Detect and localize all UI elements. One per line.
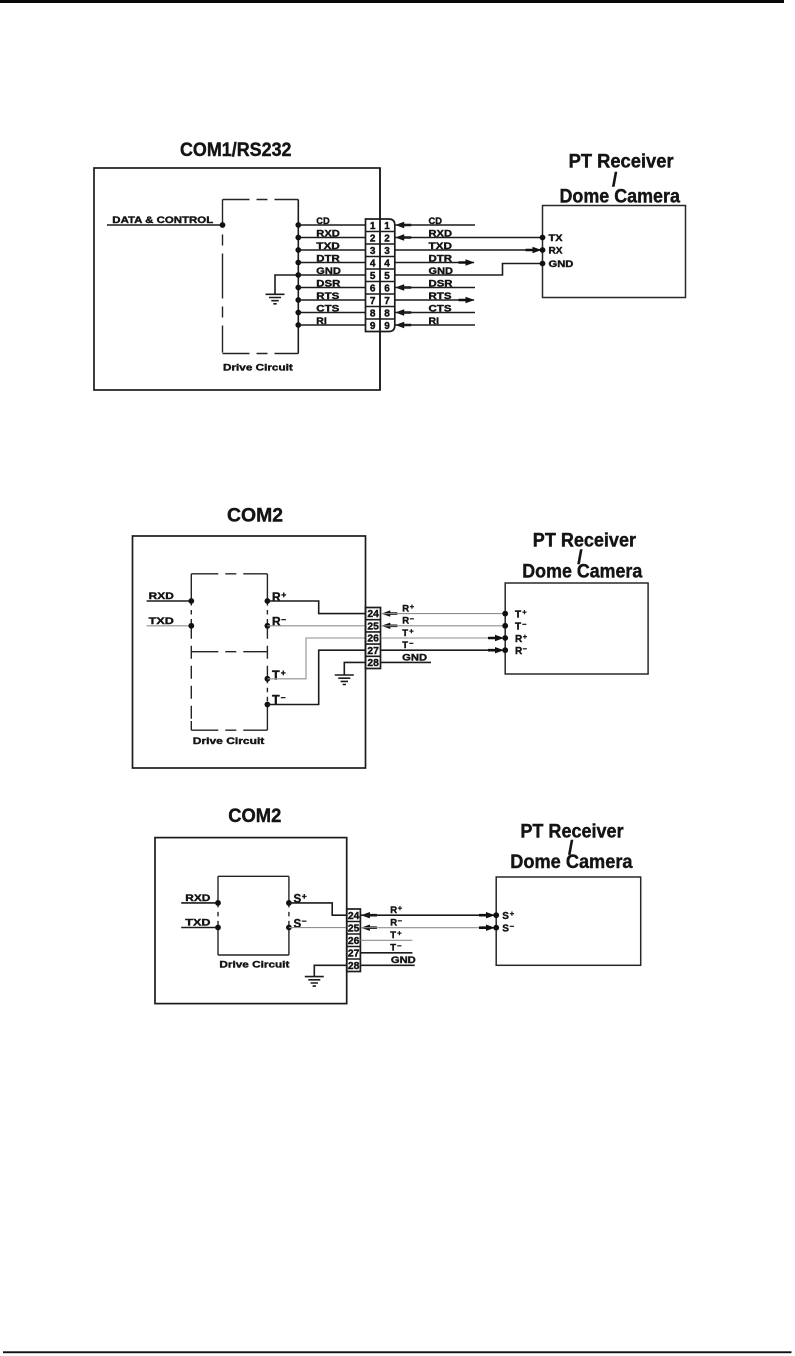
svg-text:28: 28 — [348, 961, 360, 972]
wire RXD to TX — [395, 237, 543, 239]
svg-text:GND: GND — [429, 266, 454, 277]
wire pin25 to T- — [381, 625, 505, 627]
ground symbol G3 — [305, 965, 347, 986]
svg-text:Dome Camera: Dome Camera — [522, 561, 642, 582]
COM1 box — [94, 168, 380, 390]
svg-text:+: + — [397, 929, 402, 938]
svg-text:R: R — [515, 646, 523, 657]
wire RI — [395, 324, 475, 326]
svg-text:DTR: DTR — [429, 254, 453, 265]
node T- drive output — [265, 650, 366, 707]
arrow into pin9 — [395, 322, 411, 328]
svg-text:4: 4 — [384, 259, 390, 270]
svg-text:CTS: CTS — [316, 304, 339, 315]
svg-text:+: + — [281, 590, 286, 600]
node S+ — [493, 909, 514, 922]
svg-text:+: + — [523, 632, 528, 641]
svg-text:R: R — [402, 616, 409, 627]
svg-text:+: + — [522, 607, 527, 616]
signal labels right of block — [402, 602, 427, 663]
svg-text:–: – — [523, 644, 527, 653]
svg-text:1: 1 — [384, 221, 390, 232]
svg-text:S: S — [502, 924, 509, 935]
svg-text:26: 26 — [367, 634, 379, 645]
svg-text:S: S — [502, 911, 509, 922]
junction dots on bus — [295, 222, 301, 328]
node RX — [540, 246, 564, 257]
svg-text:R: R — [272, 615, 281, 629]
arrow RTS — [459, 297, 475, 303]
top border bar — [0, 0, 784, 3]
svg-text:–: – — [281, 614, 286, 624]
node TXD — [147, 616, 195, 629]
svg-text:R: R — [390, 918, 397, 929]
svg-text:R: R — [272, 590, 281, 604]
svg-text:T: T — [390, 943, 396, 954]
arrow at receiver R- — [488, 647, 504, 653]
PT receiver box — [505, 583, 648, 674]
arrow into pin2 — [395, 234, 411, 240]
label Drive Circuit — [193, 736, 266, 747]
receiver title PT Receiver / Dome Camera — [560, 151, 681, 207]
title COM2 — [228, 806, 281, 827]
svg-text:T: T — [402, 640, 408, 651]
terminal block pins 24-28 — [347, 909, 361, 972]
wire pin25 to S- — [361, 927, 496, 929]
svg-text:+: + — [281, 667, 286, 677]
wire RTS — [395, 299, 474, 301]
node R- drive output — [265, 614, 366, 629]
svg-text:–: – — [398, 916, 402, 925]
node GND — [540, 259, 574, 270]
node R+ drive output — [265, 590, 366, 614]
receiver title PT Receiver / Dome Camera — [510, 821, 633, 873]
svg-text:PT Receiver: PT Receiver — [533, 530, 637, 551]
ground symbol G1 — [266, 275, 299, 304]
svg-text:RTS: RTS — [316, 291, 339, 302]
svg-text:T: T — [390, 930, 396, 941]
svg-text:RTS: RTS — [429, 291, 452, 302]
title COM2 — [227, 506, 283, 527]
arrow at receiver S+ — [479, 912, 495, 918]
svg-text:R: R — [515, 634, 523, 645]
svg-text:5: 5 — [384, 271, 390, 282]
svg-text:CD: CD — [429, 216, 443, 227]
svg-text:1: 1 — [370, 221, 376, 232]
svg-text:7: 7 — [370, 296, 376, 307]
wire pin27 to R- — [381, 649, 505, 651]
svg-text:PT Receiver: PT Receiver — [569, 151, 675, 172]
svg-text:DSR: DSR — [316, 279, 340, 290]
drive circuit dashed box U2 — [191, 574, 267, 730]
node TXD — [181, 918, 221, 931]
svg-text:25: 25 — [367, 621, 379, 632]
wire DSR — [395, 287, 475, 289]
node R- — [502, 644, 527, 657]
svg-text:2: 2 — [384, 234, 390, 245]
wire TXD to RX — [395, 249, 543, 251]
svg-text:GND: GND — [549, 259, 574, 270]
svg-text:27: 27 — [348, 948, 360, 959]
svg-text:T: T — [515, 622, 521, 633]
svg-text:Dome Camera: Dome Camera — [510, 852, 633, 873]
wire CTS — [395, 312, 475, 314]
svg-text:–: – — [281, 692, 286, 702]
svg-text:TX: TX — [549, 233, 564, 244]
svg-text:S: S — [294, 918, 302, 930]
wire CD — [395, 224, 475, 226]
arrow into pin24 — [381, 610, 397, 616]
svg-text:3: 3 — [370, 246, 376, 257]
svg-text:8: 8 — [370, 309, 376, 320]
svg-text:–: – — [510, 921, 514, 930]
wire pin28 GND stub — [360, 964, 414, 966]
svg-text:COM2: COM2 — [228, 806, 281, 827]
wire pin26 T+ stub — [360, 939, 412, 941]
svg-text:–: – — [397, 941, 401, 950]
bottom rule — [3, 1351, 792, 1353]
svg-text:2: 2 — [370, 234, 376, 245]
COM2 box — [155, 838, 347, 1004]
svg-text:GND: GND — [402, 652, 427, 663]
drive circuit box U3 — [218, 876, 289, 955]
svg-text:3: 3 — [384, 246, 390, 257]
svg-text:–: – — [410, 614, 414, 623]
svg-text:TXD: TXD — [429, 241, 453, 252]
wire pin24 to T+ — [381, 613, 505, 615]
svg-text:RXD: RXD — [429, 229, 453, 240]
svg-text:+: + — [510, 909, 515, 918]
svg-text:Drive Circuit: Drive Circuit — [223, 363, 294, 374]
svg-text:25: 25 — [348, 923, 360, 934]
svg-text:T: T — [272, 668, 280, 682]
svg-text:8: 8 — [384, 309, 390, 320]
svg-text:GND: GND — [391, 955, 416, 966]
svg-text:–: – — [522, 620, 526, 629]
PT receiver box — [543, 206, 686, 298]
svg-text:+: + — [410, 602, 415, 611]
pin labels left of DB9 — [316, 216, 341, 327]
svg-text:RXD: RXD — [316, 229, 340, 240]
arrow into pin6 — [395, 284, 411, 290]
svg-text:T: T — [515, 609, 521, 620]
svg-text:–: – — [409, 639, 413, 648]
svg-text:26: 26 — [348, 936, 360, 947]
node TX — [540, 233, 564, 244]
svg-text:–: – — [302, 916, 307, 926]
svg-text:24: 24 — [367, 609, 379, 620]
svg-text:6: 6 — [384, 284, 390, 295]
wire pin24 to S+ — [361, 914, 496, 916]
wire pin27 T- stub — [360, 952, 412, 954]
svg-text:COM2: COM2 — [227, 506, 283, 527]
svg-text:R: R — [390, 905, 397, 916]
COM1 box right edge / DB9 divider — [379, 168, 381, 390]
svg-text:T: T — [402, 628, 408, 639]
arrow TXD to RX — [526, 247, 542, 253]
PT receiver box — [496, 877, 641, 965]
wire GND step to receiver — [395, 264, 543, 276]
svg-text:27: 27 — [367, 646, 379, 657]
node S- — [493, 921, 514, 934]
svg-text:24: 24 — [348, 911, 360, 922]
node S- drive output — [286, 916, 347, 931]
svg-text:DSR: DSR — [429, 279, 453, 290]
svg-text:+: + — [302, 891, 307, 901]
wires bus to DB9 — [298, 225, 365, 325]
node DATA & CONTROL — [107, 215, 225, 228]
svg-text:GND: GND — [316, 266, 341, 277]
node T+ — [502, 607, 527, 620]
terminal block pins 24-28 — [366, 608, 381, 670]
arrow DTR — [459, 259, 475, 265]
node T+ drive output — [265, 638, 366, 682]
arrow at receiver R+ — [488, 635, 504, 641]
svg-text:CD: CD — [316, 216, 330, 227]
svg-text:TXD: TXD — [149, 616, 174, 627]
wire pin28 GND stub — [381, 661, 431, 663]
svg-text:7: 7 — [384, 296, 390, 307]
svg-text:COM1/RS232: COM1/RS232 — [180, 140, 292, 161]
DB9 pin numbers left column — [370, 221, 376, 332]
svg-text:TXD: TXD — [316, 241, 340, 252]
svg-text:Drive Circuit: Drive Circuit — [193, 736, 266, 747]
svg-text:+: + — [398, 904, 403, 913]
node RXD — [181, 893, 221, 906]
arrow into pin1 — [395, 222, 411, 228]
arrow at receiver S- — [479, 925, 495, 931]
svg-text:9: 9 — [370, 321, 376, 332]
svg-text:4: 4 — [370, 259, 376, 270]
arrow into pin24 — [361, 912, 377, 918]
svg-text:R: R — [402, 604, 409, 615]
DB9 connector J1 outline — [366, 219, 395, 332]
title COM1/RS232 — [180, 140, 292, 161]
svg-text:RI: RI — [316, 316, 327, 327]
svg-text:28: 28 — [367, 658, 379, 669]
svg-text:S: S — [294, 894, 302, 906]
label Drive Circuit — [223, 363, 294, 374]
svg-text:CTS: CTS — [429, 304, 452, 315]
wire pin26 to R+ — [381, 637, 505, 639]
bus wire (right edge of drive circuit) — [297, 200, 299, 354]
arrow into pin25 — [361, 925, 377, 931]
node RXD — [147, 591, 195, 604]
svg-text:Dome Camera: Dome Camera — [560, 187, 681, 208]
svg-text:5: 5 — [370, 271, 376, 282]
receiver title PT Receiver / Dome Camera — [522, 530, 642, 582]
node R+ — [502, 632, 527, 645]
wire DTR — [395, 262, 474, 264]
svg-text:RX: RX — [549, 246, 564, 257]
ground symbol G2 — [335, 662, 366, 684]
svg-text:Drive Circuit: Drive Circuit — [219, 959, 290, 970]
arrow into pin8 — [395, 309, 411, 315]
drive circuit dashed box U1 — [223, 200, 299, 354]
node S+ drive output — [286, 891, 347, 915]
COM2 box — [133, 536, 366, 768]
label Drive Circuit — [219, 959, 290, 970]
signal labels right of DB9 — [429, 216, 454, 327]
signal labels right of block — [390, 904, 416, 967]
arrow into pin25 — [381, 623, 397, 629]
DB9 pin numbers right column — [384, 221, 390, 332]
svg-text:RI: RI — [429, 316, 440, 327]
svg-text:DTR: DTR — [316, 254, 340, 265]
svg-text:9: 9 — [384, 321, 390, 332]
node T- — [502, 620, 526, 633]
svg-text:+: + — [409, 626, 414, 635]
svg-text:6: 6 — [370, 284, 376, 295]
